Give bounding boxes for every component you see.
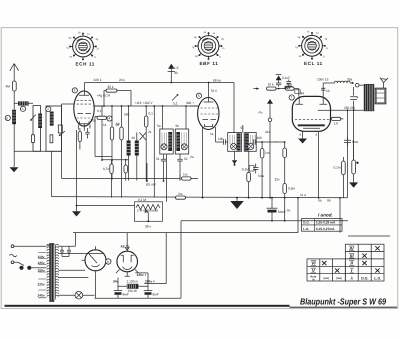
- junction dots ground bus: [202, 197, 204, 199]
- svg-text:VI: VI: [311, 261, 316, 266]
- svg-text:16: 16: [326, 89, 330, 93]
- svg-text:35 k: 35 k: [108, 85, 114, 89]
- wire plate to IF3: [233, 83, 235, 133]
- V5 pins: [116, 270, 138, 277]
- svg-text:1,5: 1,5: [174, 66, 179, 70]
- svg-text:8mF: 8mF: [153, 292, 159, 296]
- svg-text:2k: 2k: [148, 130, 152, 134]
- resistor R17 dropper hatched: [127, 284, 139, 289]
- capacitor C16 plates: [344, 137, 351, 145]
- svg-text:30a: 30a: [347, 78, 353, 82]
- svg-text:a: a: [300, 133, 302, 137]
- svg-text:100: 100: [257, 136, 263, 140]
- svg-text:9b: 9b: [327, 199, 331, 203]
- wire V3 plate line: [331, 109, 364, 111]
- tube V4 heater circle: [85, 250, 106, 271]
- IF2 coil a: [176, 132, 180, 151]
- node 30: [5, 115, 10, 120]
- connector B: [249, 166, 254, 172]
- wire IF3 avc tap: [234, 151, 236, 160]
- V2 anode: [204, 98, 214, 102]
- svg-text:1m: 1m: [265, 151, 270, 155]
- resistor R1 35k: [106, 89, 117, 92]
- svg-text:Pu: Pu: [259, 111, 263, 115]
- resistor R18 2m: [176, 196, 186, 199]
- svg-text:52: 52: [184, 157, 188, 161]
- wire R15: [284, 142, 286, 221]
- svg-text:150 W: 150 W: [128, 289, 137, 293]
- svg-text:0v: 0v: [287, 209, 291, 213]
- trimmer C2: [32, 135, 35, 143]
- wire osc bottom: [95, 157, 129, 160]
- trimmer C5: [140, 133, 147, 141]
- IF transformer IF1: [160, 129, 173, 154]
- svg-text:1f: 1f: [323, 55, 325, 58]
- svg-text:78 V: 78 V: [211, 89, 218, 93]
- svg-text:O.G.: O.G.: [361, 276, 369, 280]
- wire osc gridline: [95, 117, 102, 160]
- svg-text:7: 7: [291, 96, 293, 100]
- ground V3: [298, 139, 307, 144]
- capacitor C9: [216, 139, 228, 144]
- osc coil L6: [135, 141, 139, 156]
- tube base diagram ECH 11: [69, 33, 97, 61]
- IF1 trimmer: [161, 144, 167, 150]
- svg-text:5: 5: [198, 94, 200, 98]
- node 1: [20, 106, 25, 111]
- node 4: [107, 116, 112, 121]
- IF transformer IF3: [228, 133, 242, 152]
- V3 pins: [303, 131, 319, 198]
- V3 grid dashes: [295, 119, 329, 121]
- wire top coupling: [14, 102, 33, 104]
- symbol AC: [10, 254, 17, 257]
- svg-text:Blaupunkt -Super S W 69: Blaupunkt -Super S W 69: [300, 297, 386, 307]
- svg-text:250v +: 250v +: [145, 280, 155, 284]
- svg-text:0,1: 0,1: [149, 112, 154, 116]
- IF transformer IF4: [244, 133, 256, 152]
- svg-text:Ø1 mV: Ø1 mV: [146, 183, 157, 187]
- V5 filament: [123, 267, 132, 270]
- svg-text:1: 1: [22, 107, 24, 111]
- terminal ring: [355, 83, 359, 87]
- V3 grid1: [296, 96, 304, 104]
- svg-text:O.G.: O.G.: [303, 221, 310, 225]
- svg-text:38 v: 38 v: [145, 225, 151, 229]
- antenna: [10, 64, 19, 71]
- svg-text:ECH 11: ECH 11: [76, 62, 95, 67]
- wire AZ plate: [58, 253, 103, 255]
- svg-text:20: 20: [132, 136, 136, 140]
- svg-text:8mF: 8mF: [123, 292, 129, 296]
- table alignment grid: [307, 244, 384, 281]
- wire lamp: [58, 294, 94, 296]
- table I-anod: [302, 213, 343, 232]
- svg-text:1e: 1e: [210, 132, 214, 136]
- resistor R3: [110, 127, 113, 140]
- svg-text:4: 4: [357, 96, 359, 100]
- mains terminal upper: [11, 245, 14, 248]
- capacitor C8: [177, 154, 182, 181]
- wire C6: [145, 106, 147, 182]
- V1 cathode: [80, 121, 90, 124]
- wire drop 1: [101, 106, 103, 117]
- IF3 trimmer: [231, 144, 237, 150]
- capacitor C19: [67, 246, 71, 256]
- resistor R4: [120, 127, 123, 140]
- V3 inner line: [303, 127, 320, 129]
- wire pot feed: [77, 205, 135, 207]
- capacitor C20 electrolytic: [114, 278, 123, 291]
- wire screen drop: [346, 110, 348, 198]
- resistor R14 cathode: [352, 160, 356, 174]
- switch S1a: [31, 115, 36, 121]
- svg-text:50mF: 50mF: [278, 210, 286, 214]
- resistor R10: [260, 149, 264, 159]
- svg-text:0,1 M: 0,1 M: [138, 198, 146, 202]
- V2 grids: [201, 107, 219, 109]
- svg-text:1,0: 1,0: [334, 122, 339, 126]
- capacitor C17 electrolytic: [268, 210, 277, 213]
- heater wires: [58, 270, 88, 277]
- band filter box 2: [46, 106, 62, 151]
- svg-text:5me: 5me: [352, 140, 358, 144]
- svg-text:2 M m.Schalter: 2 M m.Schalter: [137, 209, 159, 213]
- tube V2 EBF11 envelope: [198, 98, 219, 130]
- wire drop x154: [153, 106, 155, 198]
- choke L7: [323, 81, 353, 83]
- IF transformer IF2: [175, 129, 188, 154]
- V1 anode: [79, 91, 89, 95]
- wire AVC line: [61, 104, 63, 178]
- wire det node: [276, 88, 286, 90]
- IF1 coil a: [168, 132, 172, 151]
- coil L2 coupling: [18, 101, 29, 105]
- wire grid V1: [62, 103, 75, 105]
- svg-text:24 k: 24 k: [119, 78, 125, 82]
- ground G2: [72, 211, 81, 216]
- svg-text:2: 2: [47, 107, 49, 111]
- svg-text:125v: 125v: [38, 261, 45, 265]
- svg-text:0,25-0,28 mA: 0,25-0,28 mA: [316, 221, 336, 225]
- V3 cathode bar: [298, 124, 325, 126]
- pot wiper arrow: [145, 210, 148, 222]
- wire IF1 sec drop: [165, 154, 167, 202]
- svg-text:11 a: 11 a: [300, 193, 306, 197]
- coil L3: [38, 114, 42, 129]
- symbol feed arrow: [170, 67, 172, 83]
- svg-text:1f: 1f: [219, 56, 221, 59]
- ground V3 cathode: [349, 182, 358, 187]
- resistor R7 on AVC bus: [182, 177, 192, 180]
- selector contact b: [27, 266, 31, 270]
- wire IF1 feed: [162, 106, 164, 129]
- resistor R16: [283, 184, 287, 194]
- resistor R11 10k: [267, 87, 277, 90]
- wire V3 grid2 top: [322, 83, 324, 96]
- T1 tap labels: [38, 255, 45, 298]
- line right stub: [348, 221, 390, 236]
- junction dots osc: [111, 105, 113, 107]
- main HT bus: [94, 105, 198, 107]
- svg-text:84: 84: [301, 92, 305, 96]
- wire bottom of input boxes: [14, 150, 62, 152]
- svg-text:+Ag ECH: +Ag ECH: [97, 94, 111, 98]
- svg-text:0,3m: 0,3m: [288, 187, 295, 191]
- svg-text:0,7m: 0,7m: [103, 167, 110, 171]
- wire antenna lead: [13, 64, 15, 166]
- band filter box 1: [33, 106, 41, 152]
- wire psu riser2: [180, 221, 182, 298]
- wire IF34 coupling: [242, 125, 244, 133]
- svg-text:220 k: 220 k: [94, 78, 102, 82]
- IF4 trimmer: [248, 144, 254, 150]
- V1 pins: [78, 124, 90, 131]
- osc coil L5: [127, 141, 131, 156]
- svg-text:50: 50: [116, 123, 120, 127]
- resistor R6: [124, 165, 127, 173]
- capacitor C6: [145, 116, 148, 127]
- wire V1 anode to top rail: [84, 83, 86, 92]
- svg-text:460 +: 460 +: [186, 101, 194, 105]
- IF2 trimmer: [181, 144, 187, 150]
- trimmer C3: [50, 135, 53, 143]
- svg-text:68 ka: 68 ka: [213, 78, 221, 82]
- tube V1 ECH11 envelope: [74, 91, 94, 126]
- capacitor C7: [161, 154, 166, 182]
- volume pot box: [135, 202, 163, 222]
- switch S1b: [60, 131, 66, 136]
- capacitor C4: [58, 125, 62, 133]
- wire T2 in top: [359, 84, 364, 86]
- switch S2: [172, 95, 178, 101]
- V3 plate lead: [318, 109, 331, 111]
- svg-text:100v 15: 100v 15: [317, 78, 329, 82]
- wire heater riser: [339, 198, 341, 233]
- svg-text:5a: 5a: [157, 124, 161, 128]
- svg-text:10 k: 10 k: [268, 83, 274, 87]
- svg-text:0,1uF: 0,1uF: [282, 76, 290, 80]
- V5 anodes: [121, 255, 134, 262]
- svg-text:1m: 1m: [183, 173, 188, 177]
- transformer T1 core: [49, 243, 54, 302]
- svg-text:0,15-0,27mA: 0,15-0,27mA: [316, 227, 335, 231]
- svg-text:ECL 11: ECL 11: [304, 61, 323, 66]
- wire dropper: [118, 285, 148, 287]
- speaker fork: [380, 78, 388, 89]
- svg-text:L.G.: L.G.: [303, 227, 309, 231]
- resistor R2: [97, 116, 107, 119]
- wire V2 anode up: [208, 83, 210, 98]
- thick chassis line: [5, 305, 290, 307]
- terminal dot detector: [256, 88, 258, 90]
- svg-text:30: 30: [174, 71, 178, 75]
- svg-text:9: 9: [6, 116, 8, 120]
- wire HT secondary: [58, 233, 75, 247]
- V2 cathode: [205, 124, 213, 127]
- symbol Pu input: [269, 104, 271, 198]
- svg-text:-0,5V: -0,5V: [241, 167, 249, 171]
- wire R4: [121, 106, 123, 198]
- svg-text:220v: 220v: [38, 283, 45, 287]
- svg-text:1.130 m: 1.130 m: [127, 280, 139, 284]
- svg-text:500: 500: [124, 113, 130, 117]
- node 18: [72, 88, 77, 93]
- switch mains: [14, 262, 24, 265]
- svg-text:0,1m: 0,1m: [334, 166, 341, 170]
- IF3 coil: [237, 133, 241, 150]
- wire AVC bus: [62, 175, 181, 181]
- tube V5 AZ11 rectifier: [117, 251, 138, 272]
- bus psu top: [73, 232, 298, 234]
- svg-text:(ma): (ma): [336, 277, 342, 280]
- svg-text:0,1: 0,1: [97, 109, 102, 113]
- wire to V3 grid: [294, 89, 299, 97]
- volume pot R8 zigzag: [136, 205, 160, 210]
- svg-text:100: 100: [218, 137, 224, 141]
- capacitor C10: [253, 139, 277, 144]
- svg-text:5b: 5b: [176, 124, 180, 128]
- resistor R12 40k: [286, 87, 295, 90]
- svg-text:150v: 150v: [38, 268, 45, 272]
- capacitor C14: [321, 88, 325, 90]
- svg-text:1f: 1f: [94, 56, 96, 59]
- selector contact a: [19, 266, 23, 270]
- wire V2 grid feed: [190, 105, 198, 107]
- svg-text:3: 3: [74, 89, 76, 93]
- wire B+: [135, 272, 148, 274]
- mains terminal lower: [11, 261, 14, 264]
- resistor R9: [247, 172, 251, 182]
- bus second: [181, 220, 348, 222]
- capacitor C11: [253, 164, 259, 174]
- svg-text:2m: 2m: [178, 192, 183, 196]
- resistor Ra antenna: [12, 81, 16, 91]
- coupling box: [295, 90, 300, 94]
- title underline: [290, 307, 398, 308]
- node 2: [46, 106, 51, 111]
- V3 grid2: [320, 96, 328, 104]
- coil L4: [50, 112, 54, 126]
- output transformer T2 core: [364, 84, 374, 111]
- wire L5 L6: [129, 106, 137, 181]
- resistor R20: [331, 118, 344, 120]
- wire mains top: [14, 245, 46, 247]
- coil L1 on antenna lead: [12, 110, 16, 124]
- capacitor C15: [350, 87, 357, 161]
- IF4 coil: [245, 133, 249, 150]
- resistor R13: [342, 161, 346, 175]
- psu dropper feed lines: [144, 233, 166, 284]
- symbol feed arrow 2: [278, 80, 280, 81]
- wire IF2 feed: [185, 106, 187, 129]
- capacitor C22: [85, 128, 89, 139]
- capacitor C18: [60, 246, 64, 256]
- svg-text:AZ 11: AZ 11: [121, 244, 130, 248]
- V2 diode plates: [203, 119, 217, 121]
- wire R3: [111, 106, 113, 180]
- svg-text:1k: 1k: [103, 123, 107, 127]
- V1 grids: [77, 99, 92, 101]
- T1 primary winding: [47, 244, 50, 299]
- svg-text:I anod.: I anod.: [318, 213, 333, 218]
- ground (antenna circuit): [13, 166, 15, 167]
- svg-text:L.G.: L.G.: [374, 276, 381, 280]
- wire AZ top feed: [125, 233, 129, 251]
- svg-text:+113 +102 V: +113 +102 V: [135, 101, 154, 105]
- T1 taps: [38, 253, 46, 298]
- resistor R5: [110, 164, 113, 174]
- svg-text:9a: 9a: [318, 199, 322, 203]
- svg-text:λ: λ: [350, 275, 353, 280]
- svg-text:5,2: 5,2: [173, 102, 178, 106]
- wire R1 left: [94, 91, 131, 106]
- svg-text:51: 51: [156, 157, 160, 161]
- capacitor C21 electrolytic: [144, 273, 153, 291]
- svg-text:4: 4: [108, 117, 110, 121]
- node 20: [289, 95, 294, 100]
- svg-text:6: 6: [107, 260, 109, 264]
- svg-text:110v: 110v: [38, 255, 45, 259]
- svg-text:2a: 2a: [190, 155, 194, 159]
- svg-text:M: M: [312, 278, 314, 281]
- svg-text:a: a: [316, 133, 318, 137]
- wire gang line: [51, 151, 53, 196]
- main ground bus: [52, 197, 348, 198]
- svg-text:240v: 240v: [38, 294, 45, 298]
- bottom rail psu: [95, 297, 182, 299]
- V2 pins: [203, 127, 216, 198]
- svg-text:5me: 5me: [258, 174, 264, 178]
- tube base diagram EBF 11: [195, 32, 223, 60]
- svg-text:(me): (me): [323, 277, 329, 280]
- tube V3 ECL11 envelope: [292, 96, 330, 131]
- svg-text:41a: 41a: [265, 130, 271, 134]
- svg-text:140v +: 140v +: [137, 273, 147, 277]
- tube base diagram ECL 11: [298, 32, 326, 60]
- svg-text:32v: 32v: [275, 178, 281, 182]
- node 19: [106, 259, 111, 264]
- wire IF4 out: [248, 151, 250, 172]
- resistor R15: [283, 148, 287, 158]
- wire x147 drop: [146, 163, 148, 181]
- svg-text:4M: 4M: [6, 85, 11, 89]
- capacitor C12: [276, 82, 281, 87]
- node 5: [196, 93, 201, 98]
- ground main: [231, 198, 243, 209]
- speaker: [375, 88, 386, 104]
- wire pickup bus: [76, 130, 78, 211]
- resistor R19: [78, 132, 81, 142]
- capacitor C13 hatched: [284, 86, 292, 89]
- misc small labels: [97, 109, 271, 159]
- wire psu right riser: [297, 198, 299, 233]
- wire top rail: [85, 82, 235, 84]
- svg-text:5c: 5c: [241, 126, 245, 130]
- dial lamp: [75, 291, 83, 299]
- T1 secondary winding: [55, 244, 58, 299]
- svg-text:EBF 11: EBF 11: [200, 61, 219, 66]
